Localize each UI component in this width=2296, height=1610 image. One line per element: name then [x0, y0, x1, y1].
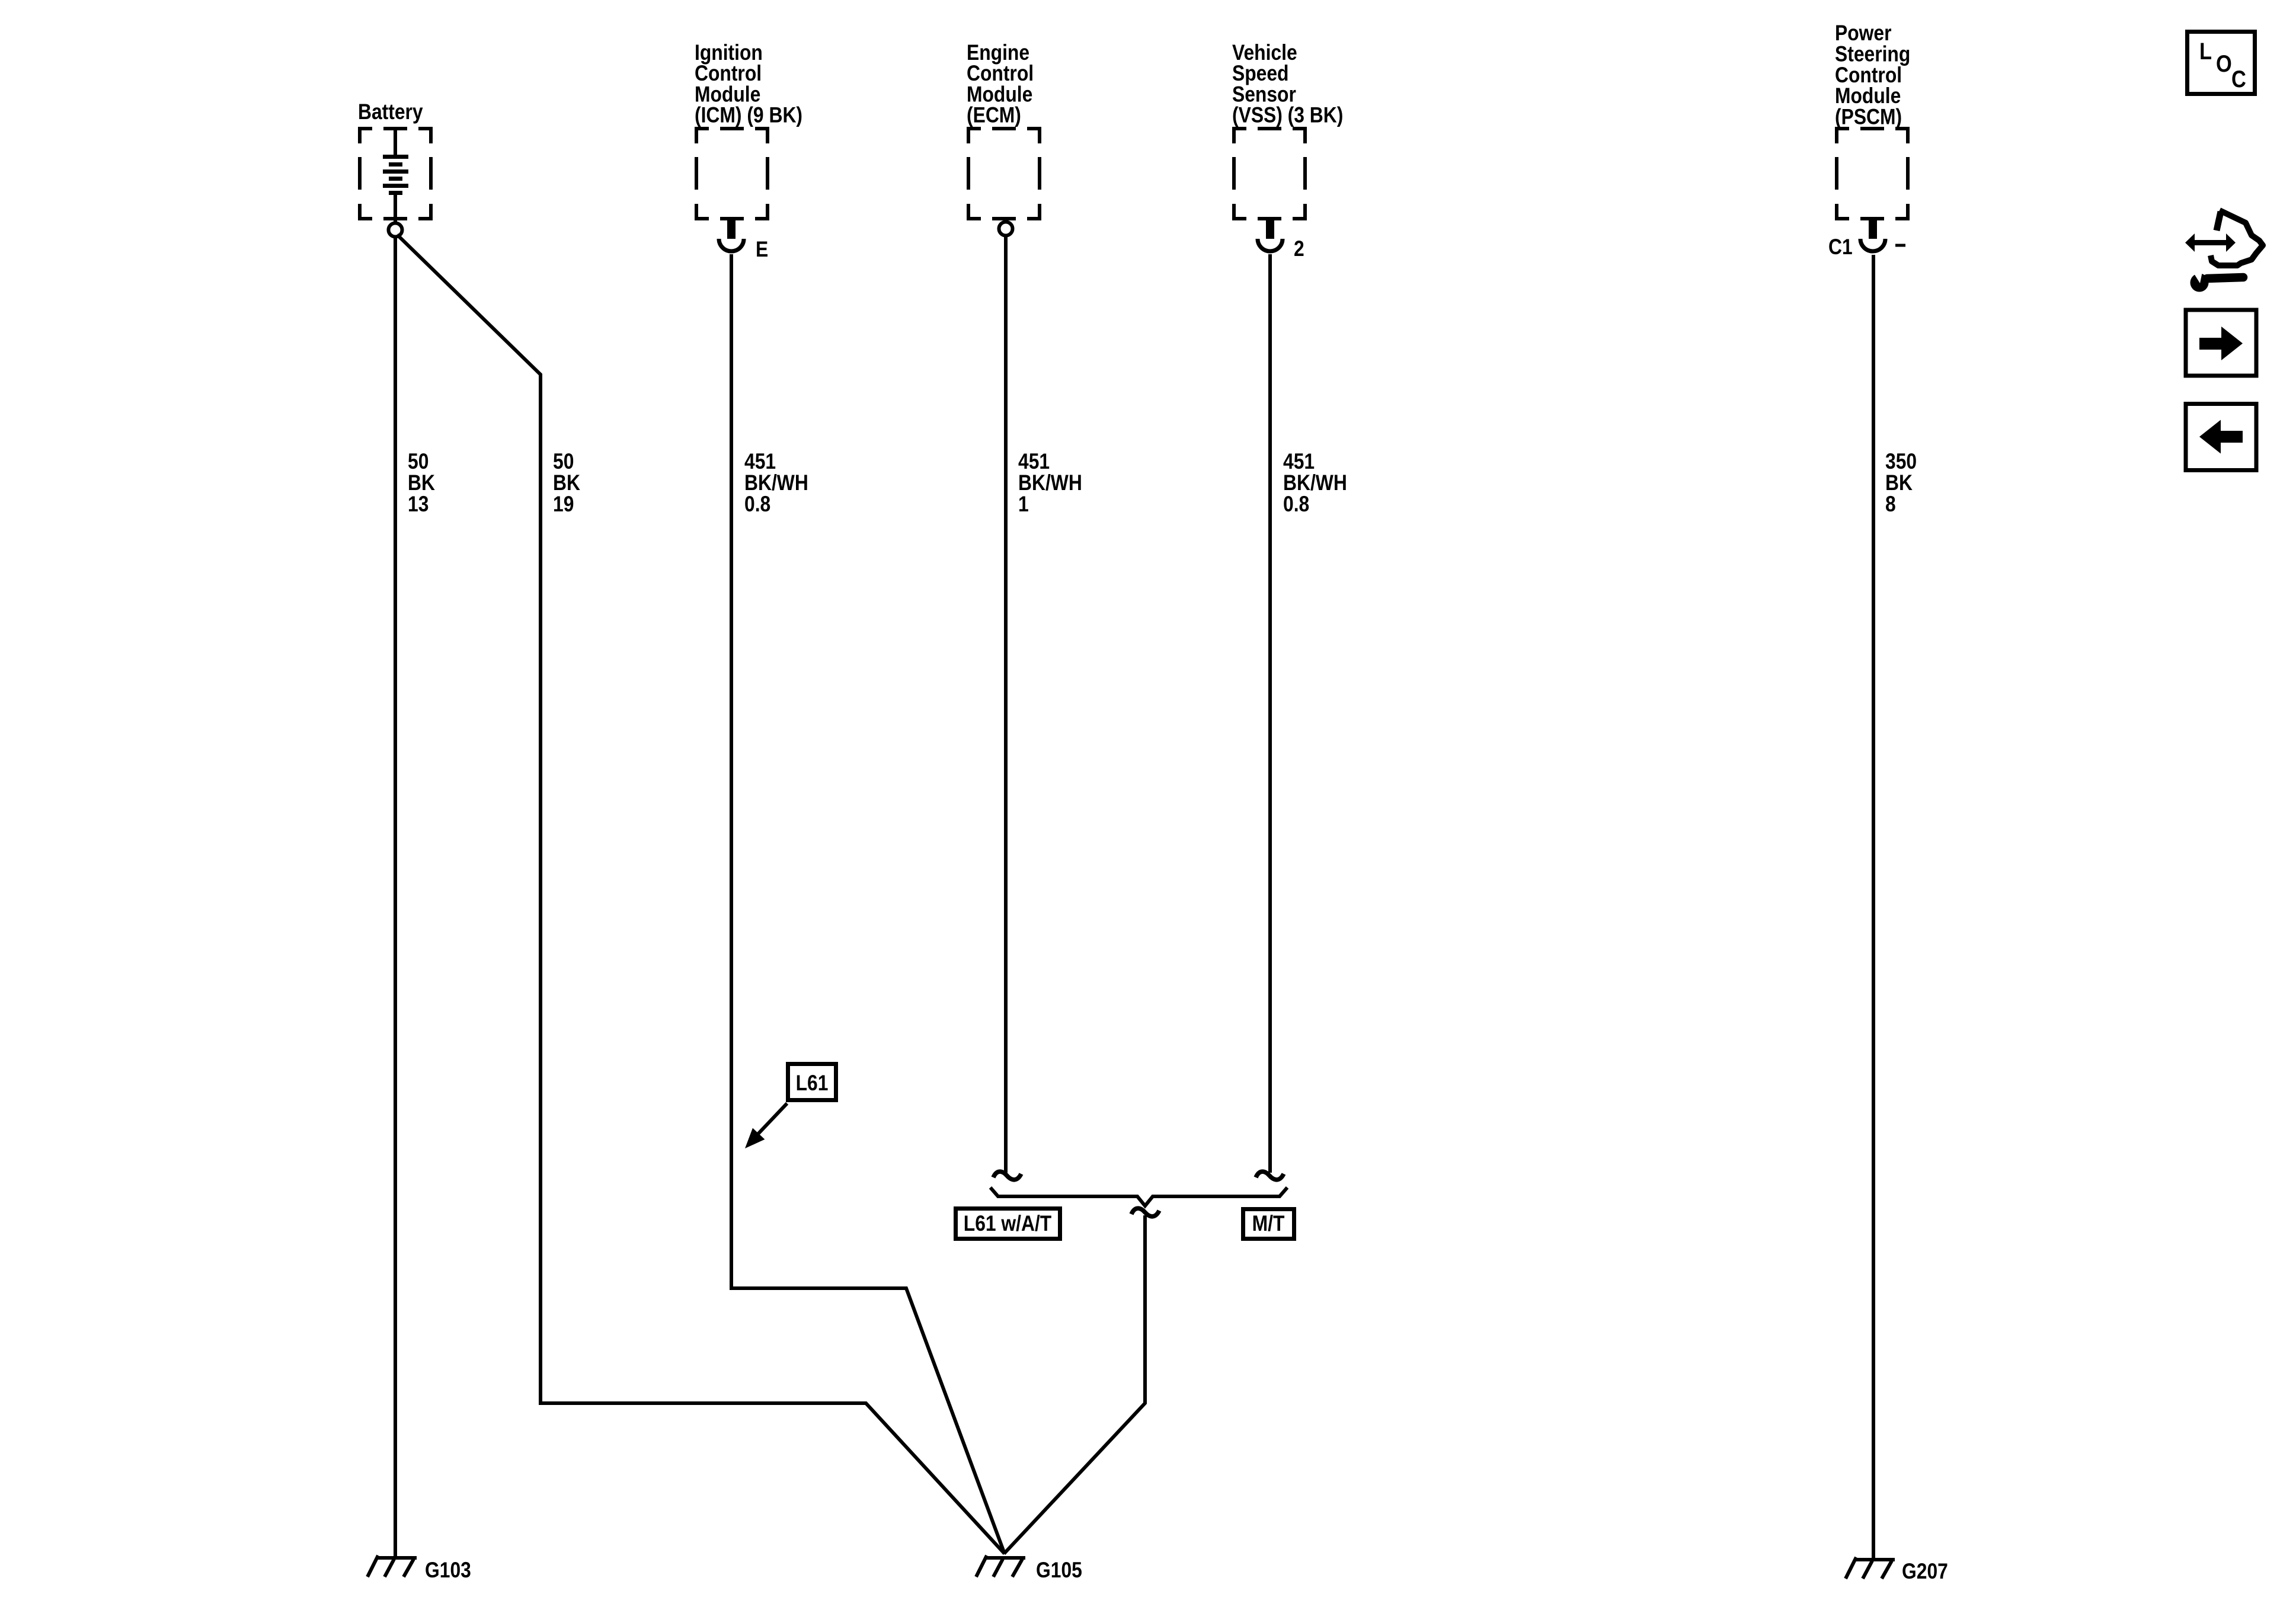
svg-text:E: E — [756, 238, 768, 262]
svg-text:50: 50 — [408, 450, 428, 474]
svg-text:BK: BK — [1885, 471, 1913, 495]
svg-text:BK/WH: BK/WH — [1018, 471, 1082, 495]
svg-text:BK/WH: BK/WH — [1283, 471, 1347, 495]
svg-text:1: 1 — [1018, 492, 1029, 517]
svg-text:350: 350 — [1885, 450, 1917, 474]
svg-text:0.8: 0.8 — [1283, 492, 1309, 517]
svg-text:451: 451 — [744, 450, 776, 474]
svg-text:BK/WH: BK/WH — [744, 471, 808, 495]
svg-text:13: 13 — [408, 492, 428, 517]
svg-text:50: 50 — [553, 450, 574, 474]
svg-text:2: 2 — [1294, 237, 1304, 261]
svg-text:M/T: M/T — [1252, 1212, 1285, 1236]
svg-text:Battery: Battery — [358, 100, 423, 124]
svg-text:G103: G103 — [425, 1558, 471, 1583]
svg-text:G105: G105 — [1036, 1558, 1082, 1583]
svg-text:O: O — [2216, 50, 2232, 77]
svg-text:(PSCM): (PSCM) — [1835, 105, 1902, 129]
svg-text:451: 451 — [1018, 450, 1050, 474]
svg-text:G207: G207 — [1902, 1560, 1948, 1584]
svg-text:19: 19 — [553, 492, 574, 517]
svg-text:C1: C1 — [1828, 235, 1853, 260]
svg-text:0.8: 0.8 — [744, 492, 770, 517]
svg-text:L61: L61 — [796, 1071, 829, 1096]
svg-text:L: L — [2199, 38, 2212, 65]
svg-text:C: C — [2231, 66, 2246, 92]
svg-text:BK: BK — [553, 471, 580, 495]
svg-text:(VSS) (3 BK): (VSS) (3 BK) — [1232, 103, 1343, 127]
svg-text:L61 w/A/T: L61 w/A/T — [964, 1212, 1051, 1236]
svg-text:BK: BK — [408, 471, 435, 495]
svg-text:(ECM): (ECM) — [967, 103, 1021, 127]
svg-text:(ICM) (9 BK): (ICM) (9 BK) — [695, 103, 802, 127]
svg-text:451: 451 — [1283, 450, 1315, 474]
svg-text:8: 8 — [1885, 492, 1896, 517]
